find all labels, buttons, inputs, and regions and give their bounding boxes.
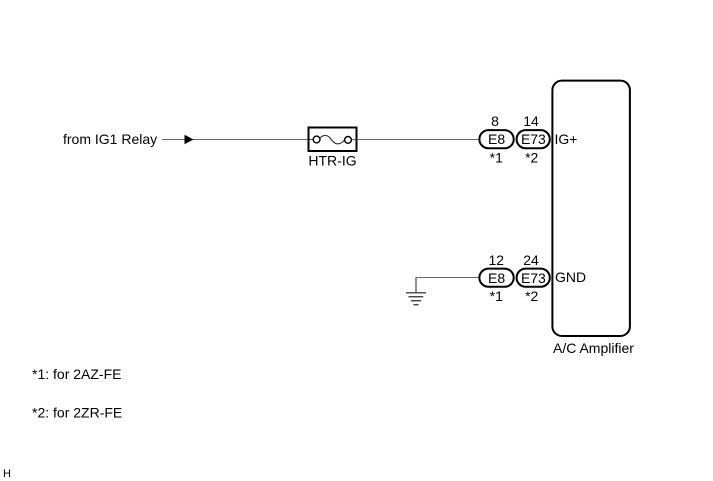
svg-text:*2: for 2ZR-FE: *2: for 2ZR-FE	[32, 405, 122, 421]
svg-text:E8: E8	[488, 270, 505, 286]
svg-text:H: H	[3, 468, 11, 480]
svg-text:*2: *2	[525, 149, 538, 165]
connector E73 (IG+ line)	[517, 130, 550, 148]
svg-text:24: 24	[523, 252, 539, 268]
svg-text:E8: E8	[488, 131, 505, 147]
fuse HTR-IG	[309, 128, 357, 152]
arrow: current direction on IG1 feed wire	[185, 135, 194, 145]
svg-text:IG+: IG+	[555, 131, 578, 147]
svg-text:HTR-IG: HTR-IG	[308, 153, 356, 169]
svg-text:*1: *1	[490, 288, 503, 304]
svg-text:8: 8	[491, 113, 499, 129]
svg-text:E73: E73	[521, 131, 546, 147]
svg-text:12: 12	[489, 252, 505, 268]
ground symbol	[406, 278, 426, 305]
svg-text:*2: *2	[525, 288, 538, 304]
wire: fuse HTR-IG to connector E8 pin 8	[357, 139, 480, 141]
A/C Amplifier box U1	[552, 81, 630, 336]
svg-text:*1: *1	[490, 149, 503, 165]
connector E8 (IG+ line)	[479, 130, 513, 148]
svg-text:from IG1 Relay: from IG1 Relay	[63, 131, 157, 147]
connector E73 (GND line)	[517, 269, 550, 287]
wire: IG1 relay feed to fuse HTR-IG	[162, 139, 309, 141]
svg-text:GND: GND	[555, 269, 586, 285]
connector E8 (GND line)	[479, 269, 513, 287]
svg-text:14: 14	[523, 113, 539, 129]
svg-text:E73: E73	[521, 270, 546, 286]
svg-text:A/C Amplifier: A/C Amplifier	[553, 340, 634, 356]
svg-text:*1: for 2AZ-FE: *1: for 2AZ-FE	[32, 366, 121, 382]
wire: ground to connector E8 pin 12	[416, 277, 480, 279]
